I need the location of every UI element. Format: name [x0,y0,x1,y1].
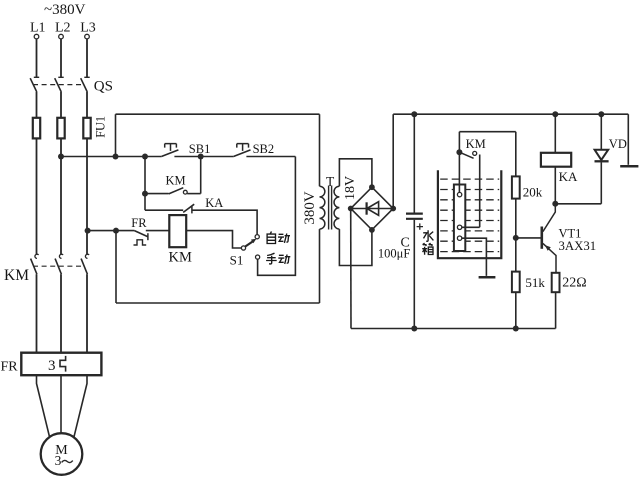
wire KM coil to S1 [186,231,241,248]
svg-text:~380V: ~380V [44,2,86,18]
node rail-VD [598,111,604,117]
svg-text:100μF: 100μF [378,247,410,261]
motor lead 1 [37,375,50,437]
node FR-vertical [113,228,119,234]
node bridge right [390,206,396,212]
svg-text:18V: 18V [343,176,358,200]
pushbutton SB2 [237,144,249,151]
wire right vertical to transformer [319,114,321,303]
contact FR [134,231,147,237]
pushbutton SB1 [165,144,177,151]
wire emitter resistor lower [555,292,557,328]
fuse FU1 pole 1 [33,118,40,139]
wire left lower vertical [115,231,117,303]
resistor 22ohm [552,273,560,292]
node bus-L2 [58,154,64,160]
selector switch S1 [241,246,245,250]
wire bridge minus down [350,209,352,329]
label shoudong manual [266,253,290,264]
capacitor plus sign [417,223,423,229]
coil KM [169,215,186,247]
node KM aux left [142,191,148,197]
water tank walls [438,170,501,258]
electrode probe holder [454,185,465,252]
svg-text:380V: 380V [302,191,318,225]
wire FR line [88,230,135,232]
svg-text:L3: L3 [80,21,96,36]
svg-text:KA: KA [205,196,223,210]
svg-text:KM: KM [169,250,192,266]
svg-text:VD: VD [609,137,627,151]
bridge diode D [351,208,394,210]
node rail-capacitor [411,111,417,117]
wire L3 upper [86,39,88,77]
wire capacitor lower [413,220,415,329]
svg-text:T: T [326,174,335,189]
transformer secondary winding [334,186,339,229]
wire bottom control [116,302,320,304]
motor M circle [41,433,83,475]
wire top control [116,113,320,115]
node base junction [513,235,519,241]
terminal auto [255,235,259,239]
probe electrode middle [457,225,461,229]
wire manual loop [258,157,296,276]
transistor VT1 [540,227,543,249]
label shuixiang water tank [422,230,433,255]
svg-text:KA: KA [559,169,578,184]
wire L2 lower [60,138,62,254]
wire L3 lower [86,138,88,254]
thermal relay FR heater box [21,353,101,376]
QS linkage dashed [33,84,85,86]
probe electrode top [457,192,461,196]
chassis ground right [627,114,629,165]
wire base [516,237,541,239]
wire capacitor upper [413,114,415,212]
node bridge bottom [369,227,375,233]
wire bridge plus up [392,114,394,208]
svg-text:QS: QS [94,78,113,94]
fuse FU1 pole 3 [83,118,90,139]
svg-text:51k: 51k [525,275,545,290]
wire SB2 to right drop [246,156,295,158]
svg-text:L1: L1 [30,21,46,36]
bridge diamond [351,187,394,230]
resistor 20k [512,176,520,198]
svg-text:KM: KM [166,173,186,187]
disconnect switch QS pole 3 [84,76,89,78]
svg-text:FR: FR [131,216,147,230]
wire secondary top to bridge [339,159,372,187]
node rail-capacitor bottom [411,326,417,332]
wire L1 lower [36,138,38,254]
node rail-51k bottom [513,326,519,332]
wire KM aux branch left [144,157,146,211]
svg-text:S1: S1 [230,253,244,268]
wire collector to VD [555,203,601,205]
KM main linkage dashed [33,265,85,267]
node collector [552,201,558,207]
node bus-left-vertical [113,154,119,160]
wire probe top link [459,131,515,133]
wire probe middle branch [462,155,480,228]
motor lead 3 [74,375,87,437]
wire probe top feed [458,132,460,193]
wire L3 to FR [86,274,88,353]
svg-text:L2: L2 [55,21,71,36]
transformer primary winding [320,186,325,229]
wire left upper vertical [115,114,117,156]
svg-text:FR: FR [1,359,19,374]
svg-text:20k: 20k [523,184,543,199]
svg-text:3: 3 [55,453,62,468]
transformer core [329,186,332,230]
diode VD [600,114,602,150]
svg-text:22Ω: 22Ω [562,275,586,290]
svg-text:SB1: SB1 [189,142,211,156]
wire L1 mid [36,92,38,118]
wire SB1 to SB2 [174,156,233,158]
wire control bus [61,156,162,158]
wire probe bottom to ground [462,238,487,276]
wire negative bottom rail [351,328,556,330]
wire L1 to FR [36,274,38,353]
FR heater symbol [60,356,66,372]
ground tank [479,276,496,279]
wire positive top rail [393,113,628,115]
wire L2 upper [60,39,62,77]
svg-text:FU1: FU1 [94,116,108,138]
contact KM probe [456,149,462,155]
disconnect switch QS pole 1 [34,76,39,78]
contactor KM main contact 2 [59,254,63,258]
contact KM auxiliary [145,193,169,195]
wire L1 upper [36,39,38,77]
contactor KM main contact 3 [85,254,89,258]
probe electrode bottom [457,236,461,240]
svg-text:3AX31: 3AX31 [559,239,597,253]
wire secondary bottom to bridge [339,229,372,265]
contactor KM main contact 1 [35,254,39,258]
terminal manual [256,255,260,259]
node bridge left [348,206,354,212]
svg-text:3: 3 [48,358,56,374]
wire L2 mid [60,92,62,118]
node rail-KA [552,111,558,117]
wire 20k branch [515,132,517,329]
node bridge top [369,184,375,190]
fuse FU1 pole 2 [57,118,64,139]
water level dashes [440,179,499,252]
svg-text:KM: KM [4,267,29,284]
relay coil KA [554,114,556,153]
capacitor C plates [406,213,423,215]
disconnect switch QS pole 2 [58,76,63,78]
node after SB1 [198,154,204,160]
wire L3 mid [86,92,88,118]
label zidong auto [267,232,290,244]
svg-text:SB2: SB2 [253,142,275,156]
wire L2 to FR [60,274,62,353]
contact KA [145,209,183,211]
svg-text:KM: KM [466,137,486,151]
node bus-KM-branch [142,154,148,160]
motor lead 2 [60,375,62,433]
node FR-L3 [85,228,91,234]
resistor 51k [512,272,520,293]
